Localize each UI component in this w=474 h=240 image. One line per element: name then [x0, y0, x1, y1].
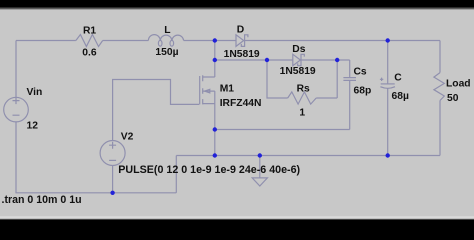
- wire D to top right corner: [245, 40, 440, 42]
- wire Ds cathode to Cs corner: [301, 59, 350, 61]
- wire M1 drain up: [214, 41, 216, 78]
- node C bottom: [386, 153, 390, 157]
- wire M1 source down: [214, 104, 216, 156]
- wire snubber top: [215, 59, 293, 61]
- node Ds cathode: [335, 58, 339, 62]
- wire R1 to L: [103, 40, 149, 42]
- resistor Load: [439, 41, 441, 73]
- svg-text:PULSE(0 12 0 1e-9 1e-9 24e-6 4: PULSE(0 12 0 1e-9 1e-9 24e-6 40e-6): [118, 164, 300, 176]
- wire L to D: [184, 40, 236, 42]
- node source rail: [213, 127, 217, 131]
- source Vin circle: [4, 97, 29, 122]
- resistor Rs: [288, 92, 317, 104]
- svg-text:50: 50: [447, 93, 459, 104]
- letterbox bottom highlight: [0, 216, 474, 218]
- svg-text:V2: V2: [121, 132, 134, 143]
- svg-text:M1: M1: [220, 83, 235, 94]
- svg-text:150µ: 150µ: [155, 47, 178, 58]
- node C top: [386, 38, 390, 42]
- svg-text:D: D: [237, 25, 244, 36]
- svg-text:R1: R1: [83, 25, 96, 36]
- ground: [259, 156, 261, 178]
- svg-text:1N5819: 1N5819: [280, 66, 316, 77]
- svg-text:1: 1: [299, 108, 305, 119]
- wire top rail left segment: [16, 40, 76, 42]
- svg-text:Ds: Ds: [292, 44, 305, 55]
- inductor L: [148, 35, 183, 41]
- source V2 circle: [100, 141, 125, 166]
- node V2 bottom: [110, 191, 114, 195]
- resistor R1: [76, 35, 103, 47]
- wire V2 top: [113, 80, 200, 141]
- node ground: [258, 153, 262, 157]
- capacitor Cs: [349, 60, 351, 78]
- svg-text:Vin: Vin: [27, 87, 43, 98]
- wire source rail y129: [215, 129, 350, 131]
- transistor M1: [199, 76, 201, 104]
- svg-text:Cs: Cs: [354, 66, 367, 77]
- svg-text:68µ: 68µ: [392, 91, 409, 102]
- svg-text:12: 12: [27, 121, 39, 132]
- wire Rs branch right: [316, 60, 337, 98]
- svg-text:68p: 68p: [354, 86, 372, 97]
- letterbox bottom: [0, 220, 474, 228]
- svg-text:1N5819: 1N5819: [224, 49, 260, 60]
- node source gnd rail: [213, 153, 217, 157]
- wire V2 bottom: [112, 166, 114, 193]
- svg-text:Rs: Rs: [297, 83, 310, 94]
- node drain-toprail: [213, 38, 217, 42]
- node snubber tap: [213, 58, 217, 62]
- svg-text:0.6: 0.6: [82, 48, 97, 59]
- wire riser left-rail to bottom-rail: [175, 156, 177, 193]
- svg-text:.tran 0 10m 0 1u: .tran 0 10m 0 1u: [2, 194, 82, 206]
- svg-text:Load: Load: [446, 79, 471, 90]
- diode D: [236, 35, 244, 47]
- letterbox top: [0, 0, 474, 7]
- capacitor C: [387, 41, 389, 84]
- svg-text:IRFZ44N: IRFZ44N: [220, 98, 262, 109]
- svg-text:C: C: [394, 73, 402, 84]
- wire left vertical (Vin branch): [15, 41, 17, 98]
- wire Rs branch left: [267, 60, 288, 98]
- wire bottom rail: [176, 155, 440, 157]
- svg-text:L: L: [164, 25, 170, 36]
- diode Ds: [293, 54, 301, 65]
- wire Vin bottom: [16, 122, 176, 193]
- node Ds anode: [265, 58, 269, 62]
